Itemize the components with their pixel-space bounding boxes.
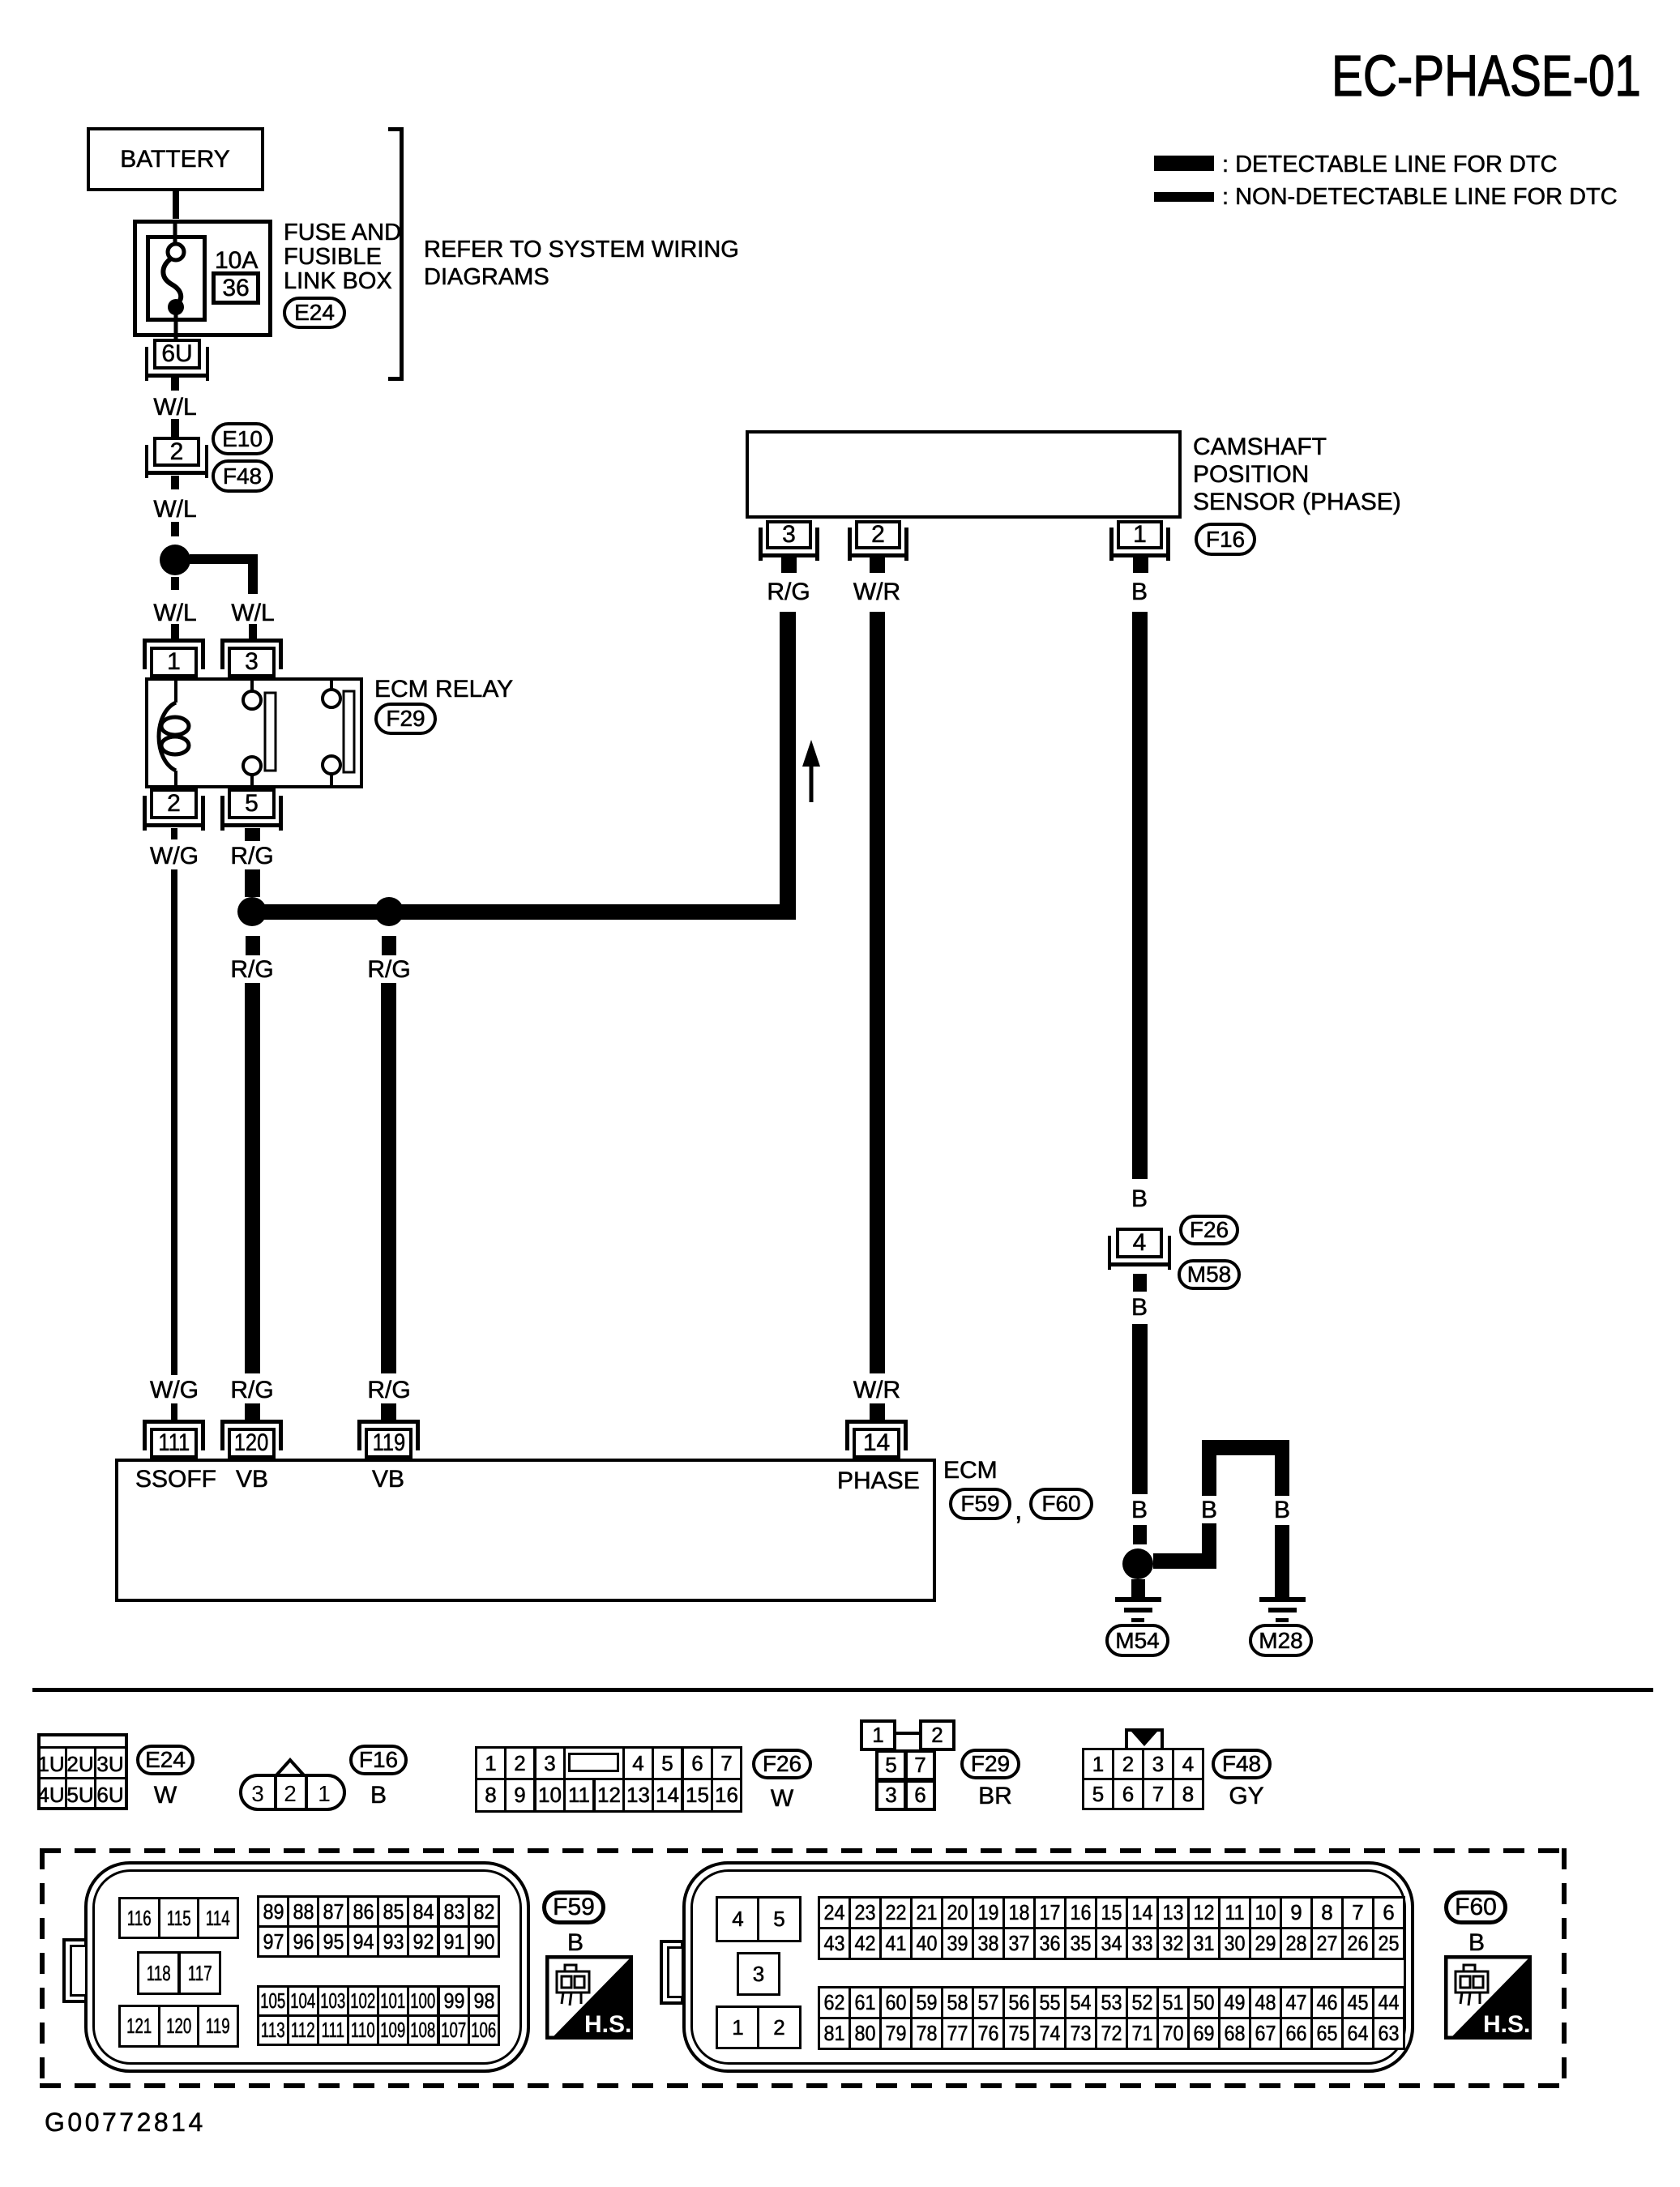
svg-text:2: 2 [284,1781,297,1806]
svg-text:H.S.: H.S. [1483,2011,1530,2038]
svg-text:3: 3 [251,1781,264,1806]
svg-text:H.S.: H.S. [584,2011,631,2038]
svg-text:1: 1 [318,1781,331,1806]
